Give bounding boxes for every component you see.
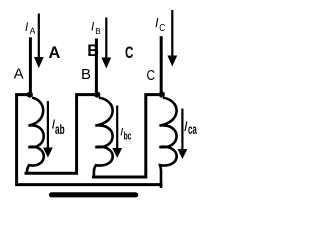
svg-text:A: A (30, 26, 36, 36)
svg-text:B: B (95, 27, 101, 36)
arrow: line current IC (167, 10, 177, 67)
svg-text:I: I (25, 22, 29, 34)
arrow: phase current Ica (178, 109, 188, 160)
wire: node a horizontal + outer left drop + bottom rail (17, 95, 161, 185)
wire: phase C feed vertical (160, 38, 163, 93)
svg-text:C: C (147, 67, 156, 84)
label Ica (184, 119, 197, 137)
svg-text:bc: bc (124, 131, 132, 143)
label Ibc (120, 126, 131, 142)
node C junction dot (159, 91, 165, 97)
arrow: line current IA (34, 14, 44, 69)
svg-text:B: B (87, 42, 99, 60)
label Iab (52, 117, 65, 137)
svg-text:A: A (14, 66, 24, 83)
arrow: phase current Ibc (112, 106, 122, 159)
wire: phase B feed vertical (95, 40, 98, 93)
bus bar (thick bottom bar) (52, 192, 136, 197)
arrow: line current IB (101, 18, 111, 69)
svg-text:C: C (159, 23, 165, 34)
inductor coil ab (27, 98, 44, 174)
arrow: phase current Iab (43, 101, 53, 158)
label IB (91, 22, 101, 36)
svg-text:A: A (49, 44, 61, 62)
node A junction dot (27, 92, 33, 98)
wire: riser ab-bottom to node b horizontal (26, 95, 97, 174)
svg-text:ca: ca (188, 122, 197, 137)
wire: riser bc-bottom to node c horizontal (94, 95, 162, 177)
wire: phase A feed vertical (29, 39, 32, 93)
inductor coil ca (159, 98, 176, 188)
inductor coil bc (94, 98, 113, 177)
label IA (25, 22, 36, 36)
svg-text:ab: ab (55, 122, 65, 137)
node B junction dot (94, 92, 100, 98)
label IC (155, 16, 166, 34)
svg-text:C: C (125, 44, 134, 62)
svg-text:B: B (81, 66, 91, 83)
